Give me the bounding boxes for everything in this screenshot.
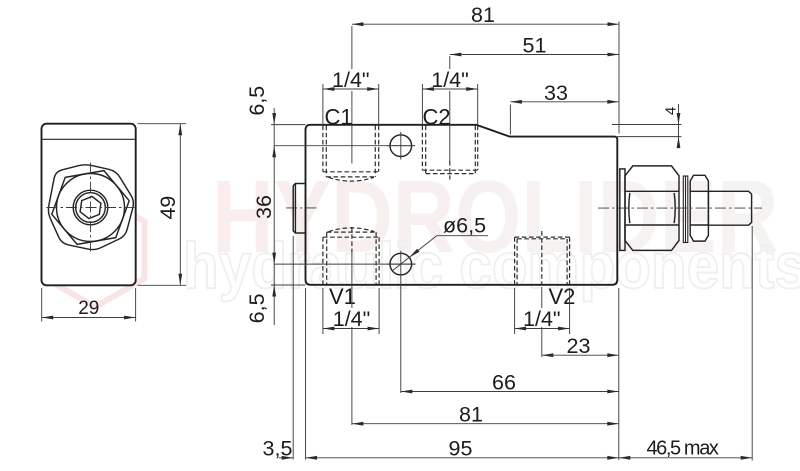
svg-text:hydraulic components: hydraulic components [183, 230, 800, 303]
lock nut hex flat edges [690, 190, 708, 192]
dimension 1/4 V1 [323, 328, 379, 330]
ext line hole1 horizontal [274, 145, 415, 147]
svg-text:95: 95 [449, 436, 473, 460]
dimension 46,5 max [619, 457, 752, 459]
svg-text:66: 66 [492, 371, 516, 395]
left view socket inner circle [76, 193, 106, 223]
port C1 threaded hole (hidden) [323, 126, 379, 182]
leader diameter 6,5 [392, 236, 488, 271]
dimension 1/4 C1 [323, 88, 379, 90]
ext line top edge left [271, 124, 306, 126]
ext line body right top [618, 22, 620, 134]
ext line plug face [292, 236, 294, 460]
svg-text:ø6,5: ø6,5 [443, 214, 486, 238]
spring washer stack [683, 176, 688, 243]
left view valve block outline [42, 124, 136, 286]
ext line step start [509, 105, 511, 135]
svg-text:C2: C2 [423, 105, 451, 130]
left view socket outer circle [73, 190, 108, 225]
dimension 51 [450, 54, 619, 56]
ext lines 49 [138, 123, 187, 125]
ext line hole2 horizontal [274, 263, 415, 265]
svg-text:36: 36 [252, 195, 276, 219]
svg-text:29: 29 [78, 298, 99, 319]
ext lines 1/4 V2 [514, 288, 516, 334]
cap nut hex flat edges [625, 190, 679, 192]
svg-text:23: 23 [567, 334, 591, 358]
screw washer flange [620, 169, 625, 251]
svg-text:C1: C1 [325, 105, 353, 130]
ext line body left bottom [305, 288, 307, 460]
ext line stem end [751, 226, 753, 461]
dimension 66 [401, 391, 619, 393]
valve body outline [306, 125, 618, 285]
dimension 81 bottom [352, 423, 619, 425]
ext lines 1/4 C2 [421, 84, 423, 125]
mounting hole top [390, 135, 412, 157]
svg-text:6,5: 6,5 [245, 86, 269, 116]
dimension 6,5 36 6,5 line [273, 108, 275, 325]
lock nut [690, 175, 708, 241]
ext lines 29 [41, 288, 43, 322]
screw axis center line [598, 207, 762, 209]
dimension 3,5 [279, 457, 293, 459]
left view top chamfer edge [43, 138, 135, 140]
dimension 1/4 C2 [422, 88, 477, 90]
adjusting stem [708, 191, 751, 225]
svg-text:3,5: 3,5 [263, 436, 293, 460]
mounting hole bottom [390, 253, 412, 275]
ext line V1 center [351, 227, 353, 252]
left view nut hexagon [52, 171, 129, 245]
svg-text:6,5: 6,5 [245, 293, 269, 323]
dimension 29 [42, 317, 136, 319]
svg-text:81: 81 [471, 3, 495, 27]
svg-text:V2: V2 [549, 284, 576, 309]
dimension 49 [179, 124, 181, 286]
ext line hole2 center vertical [400, 251, 402, 393]
left view center line horizontal [47, 207, 135, 209]
dimension 33 [510, 101, 618, 103]
svg-text:1/4": 1/4" [431, 68, 469, 92]
svg-text:33: 33 [544, 81, 568, 105]
mounting hole top cross [387, 145, 416, 147]
cap nut hex [625, 166, 679, 251]
side plug protrusion [293, 184, 305, 234]
ext lines 1/4 V1 [322, 288, 324, 334]
svg-text:49: 49 [156, 196, 180, 220]
ext lines 1/4 C1 [322, 84, 324, 125]
svg-text:51: 51 [523, 34, 547, 58]
cap nut chamfer arcs [629, 193, 630, 223]
port C2 threaded hole (hidden) [422, 126, 477, 174]
port V2 threaded hole (hidden) [515, 237, 570, 284]
dimension 95 [306, 457, 619, 459]
watermark logo inner mark [76, 231, 114, 269]
svg-text:81: 81 [459, 403, 483, 427]
dimension 81 top [352, 23, 619, 25]
left view center line vertical [90, 163, 92, 253]
port V1 threaded hole (hidden) [323, 228, 379, 284]
ext line C1 center [351, 26, 353, 69]
ext line V2 center [541, 231, 543, 285]
left view internal hex socket [80, 196, 101, 218]
mounting hole bottom cross [387, 263, 416, 265]
ext line body right bottom [618, 288, 620, 460]
svg-text:1/4": 1/4" [523, 307, 561, 331]
left view nut across-flats circle [57, 174, 125, 242]
svg-text:1/4": 1/4" [333, 307, 371, 331]
dimension 1/4 V2 [515, 328, 570, 330]
dimension 23 [542, 354, 619, 356]
ext line C2 center [449, 56, 451, 69]
side plug center line [286, 207, 317, 209]
svg-text:46,5 max: 46,5 max [646, 437, 718, 459]
svg-text:1/4": 1/4" [332, 68, 370, 92]
left view nut outer silhouette [48, 165, 133, 250]
watermark logo hexagon [46, 193, 145, 307]
ext line bottom edge left [271, 284, 306, 286]
dimension 4 step [612, 124, 682, 126]
